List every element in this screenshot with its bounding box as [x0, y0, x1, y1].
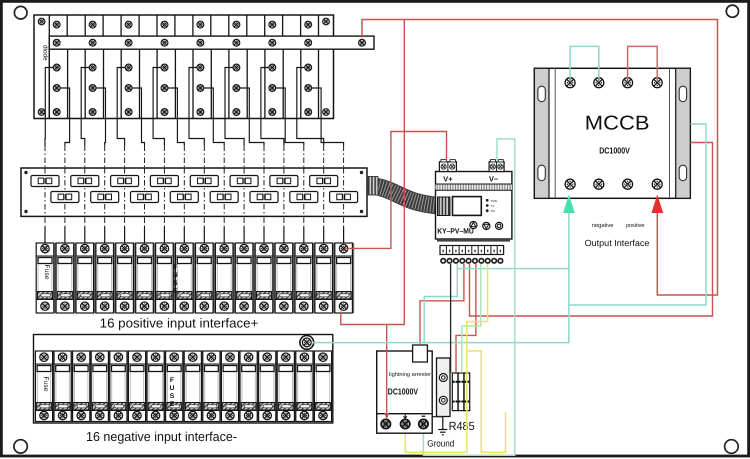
- wire: fuse F16 top to monitor V+ (red): [345, 132, 447, 249]
- fuse F12 (positive): [255, 243, 273, 313]
- svg-text:F: F: [170, 377, 174, 384]
- svg-text:DC1000V: DC1000V: [388, 386, 418, 396]
- status LEDs RUN TX RX: [486, 199, 497, 213]
- svg-text:V+: V+: [443, 174, 453, 183]
- svg-text:Ground: Ground: [427, 438, 454, 448]
- svg-text:E: E: [170, 401, 175, 408]
- fuse F29 (negative): [259, 351, 276, 422]
- arrester terminal polarity marks: [404, 414, 426, 418]
- diode output wires to fuse inputs: [45, 68, 344, 146]
- label FUSE stacked on F8: [173, 264, 178, 295]
- wire: negative sense to monitor terminal 3 (cyan): [457, 264, 569, 269]
- fuse F24 (negative): [166, 351, 183, 422]
- strip splice connectors bottom row: [51, 192, 358, 203]
- svg-text:U: U: [170, 385, 175, 392]
- feed lines through strip: [45, 168, 344, 216]
- terminal strip corner rivets: [24, 171, 363, 213]
- negative busbar terminal screw: [300, 336, 314, 350]
- monitor terminal clamp screws: [440, 258, 503, 264]
- wire: monitor terminal 3 down to negative bus (cyan): [424, 266, 457, 343]
- MCCB breaker body: [534, 68, 690, 198]
- arrester terminal screws: [381, 419, 428, 428]
- MCCB red jumper bridge: [628, 46, 658, 78]
- svg-text:Fuse: Fuse: [42, 376, 49, 391]
- wire: monitor terminal 7 to R485 strip 2 (green): [462, 264, 481, 373]
- mounting hole top-right: [726, 5, 738, 17]
- svg-text:diode: diode: [42, 45, 49, 61]
- monitor unit U1 KY-PV-MU body: [436, 172, 512, 240]
- fuse F5 (positive): [116, 243, 134, 313]
- wire: busbar branch to positive fuse bottom + arrester (red): [341, 20, 405, 325]
- diode top-row terminal screws: [53, 21, 311, 28]
- wire: monitor terminal 8 to arrester middle terminal (yellow): [405, 264, 487, 452]
- ground symbol: [438, 417, 447, 435]
- monitor DIN mount dark band: [437, 239, 510, 242]
- fuse F22 (negative): [128, 351, 145, 422]
- fuse F16 (positive): [335, 243, 353, 313]
- svg-text:S: S: [170, 393, 175, 400]
- MCCB cyan jumper bridge: [570, 46, 599, 78]
- flexible conduit from strip to monitor: [368, 177, 438, 206]
- fuse F19 (negative): [73, 351, 90, 422]
- svg-text:Fuse: Fuse: [43, 264, 50, 279]
- fuse F2 (positive): [56, 243, 74, 313]
- 16 negative input fuse row assembly: [34, 335, 333, 424]
- fuse F31 (negative): [296, 351, 313, 422]
- diode group screws (anode/cathode): [53, 64, 311, 115]
- fuse F18 (negative): [54, 351, 71, 422]
- V+ input terminal block: [439, 160, 456, 172]
- wire: positive busbar to MCCB positive output loop (red): [362, 20, 718, 296]
- svg-text:F: F: [173, 264, 177, 271]
- red arrow at MCCB positive output: [651, 195, 663, 214]
- MCCB flange slots: [538, 86, 687, 181]
- svg-text:S: S: [173, 280, 178, 287]
- mounting hole top-left: [14, 6, 27, 19]
- fuse F30 (negative): [277, 351, 294, 422]
- MCCB bottom terminal screws: [565, 179, 662, 189]
- svg-text:KY–PV–MU: KY–PV–MU: [437, 227, 474, 236]
- fuse F23 (negative): [147, 351, 164, 422]
- fuse F15 (positive): [315, 243, 333, 313]
- fuse F3 (positive): [76, 243, 94, 313]
- fuse F6 (positive): [136, 243, 154, 313]
- fuse F26 (negative): [203, 351, 220, 422]
- up button: [470, 222, 477, 229]
- diode positive busbar: [49, 36, 374, 49]
- svg-text:MCCB: MCCB: [585, 112, 650, 134]
- wire: yellow branch along R485: [467, 351, 506, 452]
- fuse F7 (positive): [156, 243, 174, 313]
- svg-text:lightning arrester: lightning arrester: [389, 372, 431, 378]
- bond link arrester to ground bar: [432, 416, 443, 418]
- wire: MCCB right sense to negative (cyan): [569, 124, 706, 305]
- svg-text:positive: positive: [626, 222, 644, 229]
- MCCB top terminal screws: [565, 78, 662, 88]
- busbar screws: [53, 39, 365, 46]
- fuse F10 (positive): [215, 243, 233, 313]
- arrester bottom terminal strip: [377, 414, 433, 434]
- fuse F20 (negative): [91, 351, 108, 422]
- fuse F8 (positive): [176, 243, 194, 313]
- fuse F21 (negative): [110, 351, 127, 422]
- fuse F14 (positive): [295, 243, 313, 313]
- 16 positive input fuse row: [36, 243, 354, 313]
- fuse F11 (positive): [235, 243, 253, 313]
- fuse F28 (negative): [240, 351, 257, 422]
- wire: MCCB negative output to negative busbar (cyan): [313, 211, 569, 343]
- wire: monitor terminal 4 to arrester top box (red): [420, 264, 464, 345]
- wire: monitor terminal 5 to MCCB right input (red): [470, 143, 713, 317]
- terminal strip assembly: [21, 168, 367, 216]
- dash-dot feed lines to fuses: [45, 146, 344, 228]
- strip splice connectors top row: [31, 176, 338, 187]
- mounting hole bottom-right: [725, 440, 739, 454]
- fuse F17 (negative): [35, 351, 52, 422]
- svg-text:DC1000V: DC1000V: [599, 145, 630, 155]
- svg-text:E: E: [173, 288, 178, 295]
- svg-text:RUN: RUN: [491, 199, 498, 203]
- V- input terminal block: [489, 160, 504, 172]
- fuse F32 (negative): [314, 351, 331, 422]
- wire: monitor terminal 2 to ground bar (black): [450, 264, 452, 373]
- wire: monitor V- to arrester negative terminal (teal): [423, 139, 514, 455]
- enter button: [496, 222, 503, 229]
- wire: monitor terminal 6 to R485 strip 1 (red): [456, 264, 476, 373]
- R485 terminal block: [452, 373, 469, 411]
- mounting hole bottom-left: [14, 440, 27, 453]
- svg-text:RX: RX: [491, 209, 495, 213]
- diode assembly corner screws: [38, 18, 329, 115]
- fuse F27 (negative): [221, 351, 238, 422]
- svg-text:U: U: [173, 272, 178, 279]
- fuse F1 (positive): [36, 243, 54, 313]
- fuse F13 (positive): [275, 243, 293, 313]
- fuse F9 (positive): [196, 243, 214, 313]
- monitor LCD display: [453, 197, 482, 216]
- svg-text:16 negative input interface-: 16 negative input interface-: [86, 429, 237, 444]
- conduit gland stripes: [438, 197, 451, 216]
- arrester top terminal box: [413, 345, 428, 362]
- label FUSE stacked on F24: [170, 377, 175, 408]
- svg-text:Output Interface: Output Interface: [585, 238, 650, 248]
- lightning arrester SPD body: [377, 351, 433, 414]
- svg-text:V−: V−: [489, 174, 499, 183]
- wire: branch down to arrester + terminal (red): [386, 325, 388, 416]
- ground DIN bar: [437, 358, 451, 417]
- down button: [483, 222, 490, 229]
- svg-text:negative: negative: [592, 222, 614, 229]
- svg-text:TX: TX: [491, 204, 495, 208]
- fuse F25 (negative): [184, 351, 201, 422]
- green arrow at MCCB negative output: [563, 195, 575, 214]
- fuse F4 (positive): [96, 243, 114, 313]
- monitor vent band: [436, 184, 512, 190]
- DIN bar screws: [439, 374, 447, 405]
- monitor bottom terminal row: [440, 246, 504, 255]
- diode module assembly: [34, 15, 334, 119]
- svg-text:16 positive input interface+: 16 positive input interface+: [100, 315, 259, 330]
- svg-text:R485: R485: [449, 419, 476, 433]
